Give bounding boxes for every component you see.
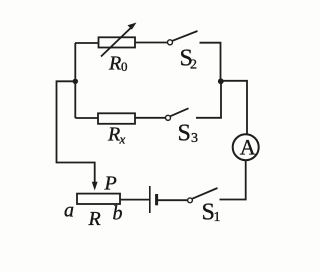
svg-text:1: 1 (214, 210, 221, 225)
svg-text:R: R (108, 53, 121, 75)
svg-text:R: R (107, 124, 120, 146)
svg-text:R: R (88, 208, 101, 230)
svg-text:A: A (240, 134, 256, 159)
svg-text:b: b (113, 203, 123, 225)
svg-text:a: a (64, 200, 74, 222)
svg-text:2: 2 (190, 58, 197, 73)
svg-text:P: P (104, 173, 117, 195)
svg-text:0: 0 (121, 59, 128, 74)
svg-text:x: x (119, 132, 126, 147)
svg-text:3: 3 (191, 131, 198, 146)
svg-text:S: S (178, 121, 191, 147)
